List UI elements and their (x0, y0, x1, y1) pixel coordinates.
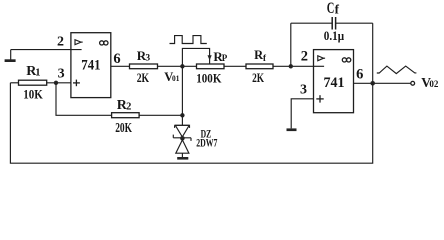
svg-text:2DW7: 2DW7 (196, 136, 217, 150)
square wave symbol (170, 36, 207, 44)
op-amp U2 box (314, 50, 354, 113)
svg-text:C: C (327, 0, 335, 17)
wire node A to R2 (56, 83, 112, 116)
wire pin6 U1 to R3 (111, 65, 130, 67)
node B (180, 113, 184, 117)
op-amp U1 box (71, 33, 111, 98)
wire V01 down (181, 66, 183, 125)
svg-text:2: 2 (301, 48, 308, 64)
svg-text:3: 3 (300, 83, 307, 98)
resistor R1 (10, 82, 18, 84)
wire pin3 U2 to ground (291, 99, 313, 129)
svg-text:0.1μ: 0.1μ (324, 28, 345, 43)
resistor R3 (130, 64, 158, 69)
svg-text:2: 2 (57, 35, 64, 50)
wire pin2 U1 (11, 49, 82, 51)
ground (10, 50, 12, 60)
wire output U2 (354, 82, 411, 84)
svg-text:f: f (335, 1, 340, 16)
triangle wave symbol (377, 66, 417, 74)
capacitor Cf (290, 23, 292, 66)
svg-text:1: 1 (35, 68, 40, 79)
svg-text:2K: 2K (252, 70, 265, 85)
node A (54, 81, 58, 85)
resistor Rf (246, 64, 273, 69)
svg-text:2: 2 (126, 102, 131, 113)
zener DZ 2DW7 (175, 124, 190, 126)
node D (370, 81, 375, 86)
svg-text:100K: 100K (196, 70, 222, 85)
op-amp U1 symbol (75, 40, 81, 45)
ground (287, 128, 297, 131)
wire feedback loop (10, 83, 372, 163)
op-amp U2 symbol (318, 56, 324, 61)
svg-text:741: 741 (324, 75, 345, 91)
wire wiper RP (182, 48, 209, 66)
svg-text:741: 741 (81, 58, 100, 74)
potentiometer RP (197, 64, 225, 69)
svg-text:02: 02 (429, 79, 439, 89)
svg-text:20K: 20K (115, 120, 132, 135)
node C (289, 64, 293, 68)
svg-text:6: 6 (113, 51, 120, 67)
resistor R2 (112, 113, 140, 118)
svg-text:01: 01 (172, 73, 179, 83)
svg-text:P: P (222, 53, 228, 63)
svg-text:2K: 2K (137, 70, 150, 85)
node V01 (180, 64, 184, 68)
ground (177, 157, 188, 160)
terminal V02 (411, 81, 415, 85)
svg-text:10K: 10K (23, 88, 43, 102)
svg-text:3: 3 (58, 66, 65, 81)
svg-text:6: 6 (356, 67, 363, 83)
svg-text:3: 3 (145, 54, 150, 64)
